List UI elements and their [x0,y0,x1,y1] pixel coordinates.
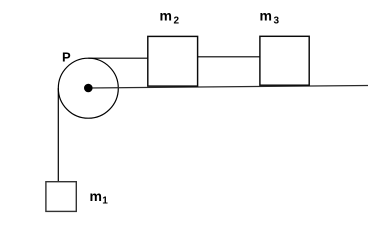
block m2 [148,36,198,86]
wire: surface line from pulley axle to right edge [88,86,368,89]
block m1 [46,182,76,212]
svg-text:P: P [62,50,71,65]
wire: string from pulley top to block m2 [88,57,147,59]
svg-text:m1: m1 [90,188,109,207]
wire: string from block m2 to block m3 [198,56,260,58]
pulley P [58,58,118,118]
block m3 [260,36,309,85]
svg-text:m2: m2 [160,8,180,27]
svg-text:m3: m3 [260,8,280,27]
pulley axle dot [84,84,93,93]
wire: string hanging from pulley to block m1 [57,88,59,182]
